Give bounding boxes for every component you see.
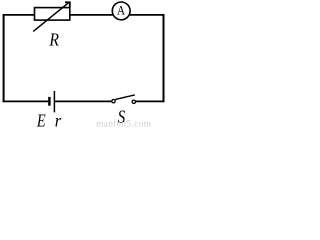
- wire: left vertical side: [3, 14, 5, 102]
- svg-text:r: r: [55, 110, 62, 128]
- wire: top middle from rheostat to ammeter: [70, 14, 113, 16]
- switch S right contact: [132, 100, 135, 103]
- rheostat arrowhead: [65, 2, 70, 8]
- wire: bottom-right from right corner to switch: [136, 100, 165, 102]
- battery short plate (negative): [48, 97, 51, 106]
- ammeter U1 circle: [112, 2, 130, 20]
- switch S left contact: [112, 100, 115, 103]
- svg-text:manfen5.com: manfen5.com: [96, 119, 152, 129]
- wire: right vertical side: [163, 14, 165, 102]
- wire: bottom middle from switch to battery: [55, 100, 112, 102]
- switch S lever: [115, 95, 135, 100]
- svg-text:R: R: [49, 29, 59, 49]
- wire: top-right from ammeter to right corner: [130, 14, 165, 16]
- rheostat arrow shaft: [33, 3, 69, 32]
- battery long plate (positive): [53, 91, 55, 112]
- wire: bottom-left from battery to left corner: [3, 100, 49, 102]
- resistor R1 rheostat body: [35, 8, 70, 21]
- svg-text:E: E: [36, 110, 46, 128]
- svg-text:A: A: [117, 3, 125, 17]
- wire: top-left horizontal from left corner to rheostat: [3, 14, 35, 16]
